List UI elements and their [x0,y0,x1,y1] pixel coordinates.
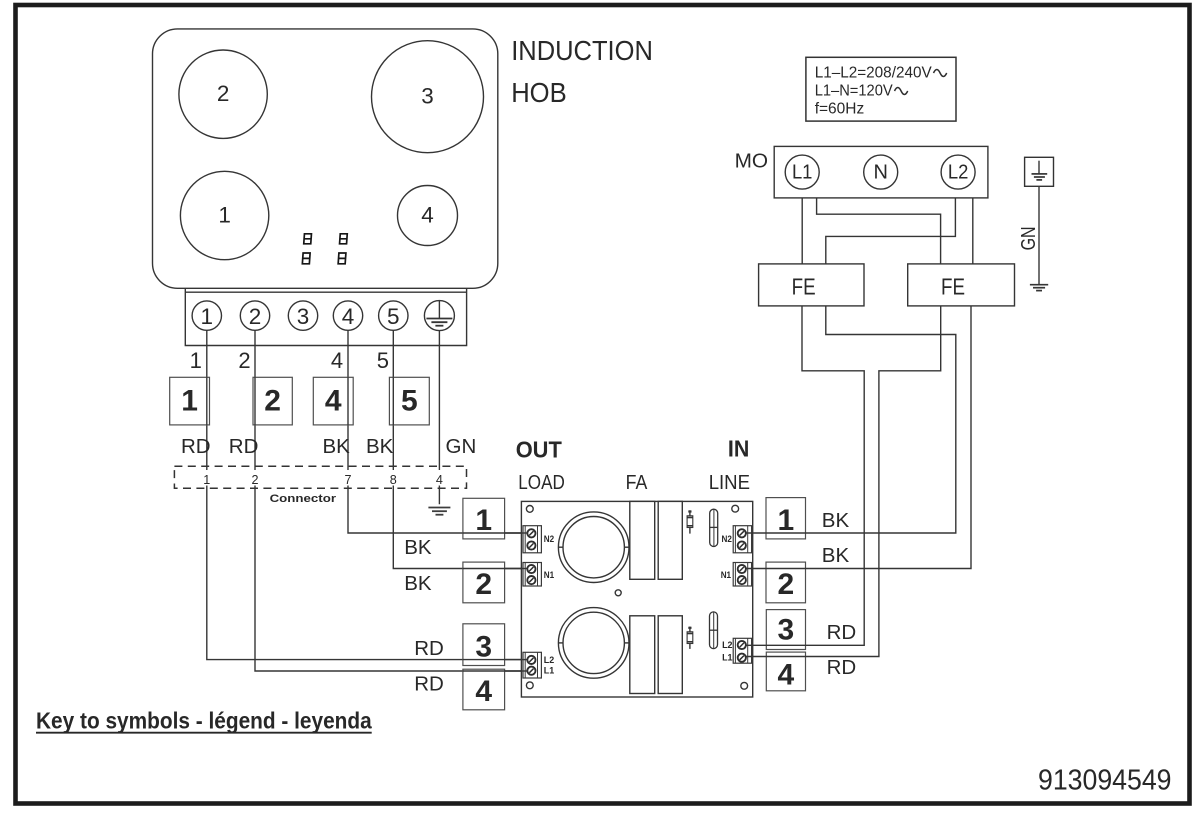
svg-text:4: 4 [342,304,355,329]
svg-text:5: 5 [387,304,400,329]
svg-text:3: 3 [297,304,310,329]
svg-text:IN: IN [728,436,749,462]
svg-text:N1: N1 [721,570,732,581]
svg-text:2: 2 [264,385,281,418]
svg-text:1: 1 [218,203,231,228]
svg-text:1: 1 [475,504,492,537]
svg-text:2: 2 [475,568,492,601]
svg-text:Connector: Connector [270,493,337,505]
svg-text:2: 2 [249,304,262,329]
svg-text:2: 2 [238,348,250,373]
svg-text:L1–L2=208/240V: L1–L2=208/240V [815,64,933,81]
svg-text:BK: BK [404,572,432,595]
svg-text:L1–N=120V: L1–N=120V [815,82,894,99]
svg-text:BK: BK [822,509,850,532]
svg-text:L1: L1 [544,665,555,676]
svg-text:3: 3 [778,614,795,647]
svg-text:LOAD: LOAD [518,471,565,494]
svg-text:OUT: OUT [516,437,563,463]
svg-text:N2: N2 [722,534,732,545]
svg-text:BK: BK [366,435,394,458]
svg-text:RD: RD [181,435,211,458]
svg-text:f=60Hz: f=60Hz [815,101,865,118]
svg-text:FA: FA [626,471,648,494]
svg-text:913094549: 913094549 [1038,765,1172,797]
svg-text:1: 1 [201,304,214,329]
svg-text:N2: N2 [544,534,554,545]
svg-text:1: 1 [777,504,794,537]
svg-text:5: 5 [401,385,418,418]
svg-text:FE: FE [792,274,816,300]
svg-text:1: 1 [181,385,198,418]
svg-text:INDUCTION: INDUCTION [511,35,653,66]
svg-text:1: 1 [203,473,210,487]
svg-text:1: 1 [190,348,202,373]
svg-text:4: 4 [475,675,492,708]
svg-text:GN: GN [446,435,477,458]
svg-text:L1: L1 [792,162,813,184]
svg-text:7: 7 [344,473,351,487]
svg-text:HOB: HOB [511,77,567,108]
svg-text:L1: L1 [722,653,733,664]
svg-text:RD: RD [414,637,444,660]
svg-text:3: 3 [421,84,434,109]
svg-text:5: 5 [377,348,389,373]
svg-text:2: 2 [251,473,258,487]
svg-text:Key to symbols - légend - leye: Key to symbols - légend - leyenda [36,708,372,734]
svg-text:GN: GN [1017,226,1040,250]
svg-text:L2: L2 [544,655,554,666]
svg-text:4: 4 [436,473,443,487]
svg-text:RD: RD [827,621,857,644]
svg-text:3: 3 [475,630,492,663]
svg-text:RD: RD [827,656,857,679]
svg-text:RD: RD [229,435,259,458]
svg-text:LINE: LINE [709,471,750,494]
svg-text:RD: RD [414,673,444,696]
svg-text:4: 4 [421,203,434,228]
svg-text:BK: BK [822,544,850,567]
svg-text:L2: L2 [722,640,732,651]
svg-text:MO: MO [735,150,769,173]
svg-text:8: 8 [390,473,397,487]
svg-text:2: 2 [217,81,230,106]
svg-text:N1: N1 [544,570,555,581]
svg-text:BK: BK [404,536,432,559]
svg-text:2: 2 [777,568,794,601]
svg-text:N: N [873,162,887,184]
svg-text:FE: FE [941,274,965,300]
svg-text:4: 4 [331,348,343,373]
svg-text:L2: L2 [948,162,969,184]
svg-text:BK: BK [323,435,351,458]
svg-text:4: 4 [325,385,342,418]
svg-text:4: 4 [778,659,795,692]
